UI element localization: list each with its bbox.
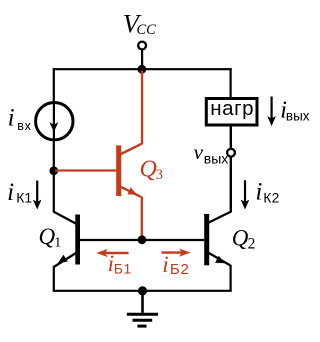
svg-text:2: 2 [248, 235, 256, 252]
label Q1 [39, 224, 62, 250]
svg-text:Б2: Б2 [170, 261, 190, 278]
node base junction [138, 235, 147, 244]
wire output terminal to Q2 collector [230, 157, 232, 212]
svg-text:3: 3 [156, 167, 163, 183]
wire Q1 emitter to bottom rail [53, 266, 55, 291]
wire left branch lower (source to node) [53, 139, 55, 171]
svg-text:Б1: Б1 [114, 261, 132, 277]
wire right branch top (rail to load) [230, 68, 232, 97]
label VCC [123, 9, 156, 39]
label Q2 [232, 225, 256, 252]
svg-text:вх: вх [17, 119, 31, 133]
label i_К1 [7, 179, 32, 206]
wire Q3 emitter down to base rail (red) [141, 197, 143, 240]
label i_Б1 (red) [108, 251, 132, 277]
label i_вых [280, 97, 310, 123]
current source arrow [49, 104, 58, 139]
svg-text:1: 1 [54, 235, 61, 250]
svg-text:К2: К2 [263, 190, 279, 205]
wire Q3 collector to top rail (red) [141, 71, 143, 144]
output terminal v_вых [227, 149, 235, 157]
svg-text:К1: К1 [16, 190, 32, 206]
node ground junction [138, 286, 147, 295]
svg-text:i: i [255, 179, 262, 206]
wire Q3 base (red) [55, 169, 117, 171]
svg-text:Q: Q [140, 156, 157, 182]
label i_вх [8, 104, 32, 132]
svg-text:вых: вых [204, 150, 229, 166]
node top junction [138, 65, 147, 74]
ground [127, 291, 158, 326]
arrow i_К1 [33, 181, 42, 210]
transistor Q3 (red) [116, 144, 142, 197]
wire Q2 emitter to bottom rail [230, 265, 232, 291]
wire bottom rail [53, 290, 232, 292]
svg-text:CC: CC [137, 22, 157, 38]
wire node A down to Q1 collector [53, 171, 55, 212]
wire base rail Q1 to Q2 [80, 239, 204, 241]
svg-text:Q: Q [39, 224, 56, 249]
transistor Q2 [204, 212, 231, 266]
transistor Q1 [53, 212, 80, 267]
svg-text:вых: вых [286, 109, 310, 124]
load box нагр [206, 97, 257, 125]
label i_Б2 (red) [162, 252, 189, 278]
arrow i_Б1 (red) [96, 249, 128, 257]
svg-text:Q: Q [232, 225, 249, 250]
arrow i_вых [267, 97, 276, 127]
arrow i_Б2 (red) [162, 249, 191, 257]
power terminal VCC [138, 42, 146, 50]
label Q3 (red) [140, 156, 163, 182]
wire VCC terminal to rail [141, 50, 143, 70]
svg-text:i: i [162, 252, 168, 277]
svg-text:v: v [194, 140, 204, 164]
svg-text:нагр: нагр [210, 97, 254, 120]
arrow i_К2 [241, 180, 250, 209]
wire load to output terminal [230, 125, 232, 149]
label v_вых [194, 140, 229, 166]
node A input node [49, 166, 58, 175]
wire top rail [53, 68, 232, 70]
wire left branch upper [53, 68, 55, 104]
current source circle [36, 103, 73, 140]
svg-text:i: i [8, 104, 15, 131]
svg-text:i: i [7, 179, 14, 206]
label i_К2 [255, 179, 279, 206]
